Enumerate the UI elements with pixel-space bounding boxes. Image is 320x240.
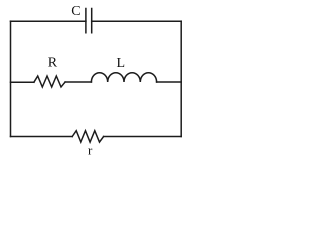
wire: middle-right segment [157, 81, 182, 83]
capacitor C [86, 9, 92, 33]
inductor L [91, 73, 156, 82]
wire: bottom-left segment [11, 136, 73, 138]
wire: right border [180, 21, 182, 136]
svg-text:C: C [71, 4, 80, 19]
resistor r [72, 131, 103, 142]
svg-text:L: L [117, 56, 126, 71]
wire: bottom-right segment [104, 136, 182, 138]
wire: middle segment between R and L [65, 81, 91, 83]
resistor R [34, 76, 65, 87]
wire: middle-left segment [11, 81, 34, 83]
svg-text:R: R [48, 56, 58, 71]
wire: left border [10, 21, 12, 136]
svg-text:r: r [88, 142, 93, 157]
wire: top-right segment [92, 20, 182, 22]
wire: top-left segment [11, 20, 86, 22]
